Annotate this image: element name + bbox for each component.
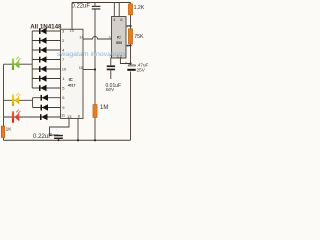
wire right divider line	[130, 3, 132, 66]
svg-text:+: +	[125, 61, 127, 65]
wire row pin5	[32, 87, 60, 89]
svg-text:1K: 1K	[6, 126, 13, 132]
resistor 1M	[93, 105, 97, 118]
junction pin8-ground	[77, 139, 79, 141]
diode D4 1N4148	[39, 56, 47, 62]
svg-text:4017: 4017	[68, 83, 76, 87]
wire row pin9	[33, 107, 61, 109]
svg-text:All 1N4148: All 1N4148	[30, 23, 62, 30]
diode D2 1N4148	[39, 37, 47, 43]
junction pin7-divider	[129, 25, 131, 27]
wire bottom ground rail	[4, 139, 131, 141]
junction cap-ground	[58, 139, 60, 141]
wire yellow LED row	[4, 99, 33, 101]
svg-text:1.2K: 1.2K	[134, 5, 145, 11]
diode D1 1N4148	[39, 28, 47, 34]
wire IC1 pin8 to ground rail	[77, 119, 79, 141]
capacitor 0.01uF	[107, 65, 115, 79]
svg-text:50V: 50V	[106, 87, 115, 92]
wire green LED row	[4, 63, 33, 65]
wire 555 pin2 to timing node	[120, 58, 130, 64]
capacitor 0.22uF top	[92, 3, 101, 10]
svg-text:IC: IC	[69, 77, 73, 82]
wire IC1 pin13 to cap	[50, 119, 70, 136]
junction 1M-ground	[94, 139, 96, 141]
junction pin15-resetline	[94, 68, 96, 70]
node bus yellow group	[32, 98, 34, 108]
wire row pin11 (red LED row)	[4, 116, 61, 118]
resistor 1.2K	[128, 4, 132, 15]
svg-text:25V: 25V	[137, 67, 146, 72]
resistor 1K	[1, 126, 5, 138]
wire 555 pin8 to rail	[118, 3, 120, 17]
wire IC1 pin15 to reset line	[83, 69, 95, 71]
wire row pin10	[32, 68, 60, 70]
wire left cathode bus	[3, 64, 5, 140]
junction pin6-divider	[129, 44, 131, 46]
svg-text:555: 555	[116, 41, 122, 45]
wire row pin7	[32, 59, 60, 61]
wire IC1 pin14 to 555 pin3 with hop	[83, 36, 112, 39]
junction pin2-timing	[129, 62, 131, 64]
capacitor .47uF 25V polarized	[125, 61, 136, 71]
wire 555 pin7 to divider	[126, 25, 131, 27]
svg-text:IC: IC	[117, 35, 121, 40]
node bus green group	[31, 31, 33, 88]
resistor 75K	[128, 29, 132, 44]
LED green	[12, 57, 21, 70]
svg-text:swagatam innovations: swagatam innovations	[57, 52, 126, 58]
IC U1 4017 box	[61, 29, 84, 118]
svg-text:75K: 75K	[134, 34, 144, 40]
diode D9 1N4148	[41, 104, 49, 110]
wire row pin2	[32, 40, 60, 42]
wire row pin1	[32, 78, 60, 80]
wire 555 pin5 drop	[110, 58, 112, 65]
capacitor 0.22uF bottom	[54, 135, 63, 141]
diode D6 1N4148	[39, 75, 47, 81]
wire row pin3	[32, 30, 60, 32]
diode D5 1N4148	[39, 66, 47, 72]
wire reset line (cap to pin15 to 1M)	[94, 10, 96, 141]
svg-text:0.22uF: 0.22uF	[33, 134, 52, 140]
svg-text:13: 13	[67, 114, 72, 119]
wire IC1 pin16 to top rail	[71, 3, 73, 30]
diode D10 1N4148	[40, 114, 48, 120]
wire row pin4	[32, 49, 60, 51]
svg-text:16: 16	[69, 27, 74, 32]
wire top supply rail	[72, 2, 131, 4]
IC U2 555 box	[112, 17, 127, 59]
svg-text:0.22uF: 0.22uF	[72, 3, 91, 9]
diode D3 1N4148	[39, 47, 47, 53]
LED yellow	[12, 93, 21, 106]
diode D8 1N4148	[41, 95, 49, 101]
svg-text:10: 10	[62, 67, 67, 72]
LED red	[12, 110, 21, 123]
wire 555 pin4 to rail	[113, 3, 115, 17]
diode D7 1N4148	[39, 85, 47, 91]
svg-text:1M: 1M	[100, 105, 108, 111]
wire row pin6	[33, 97, 61, 99]
wire 555 pin6 to divider	[126, 45, 131, 47]
